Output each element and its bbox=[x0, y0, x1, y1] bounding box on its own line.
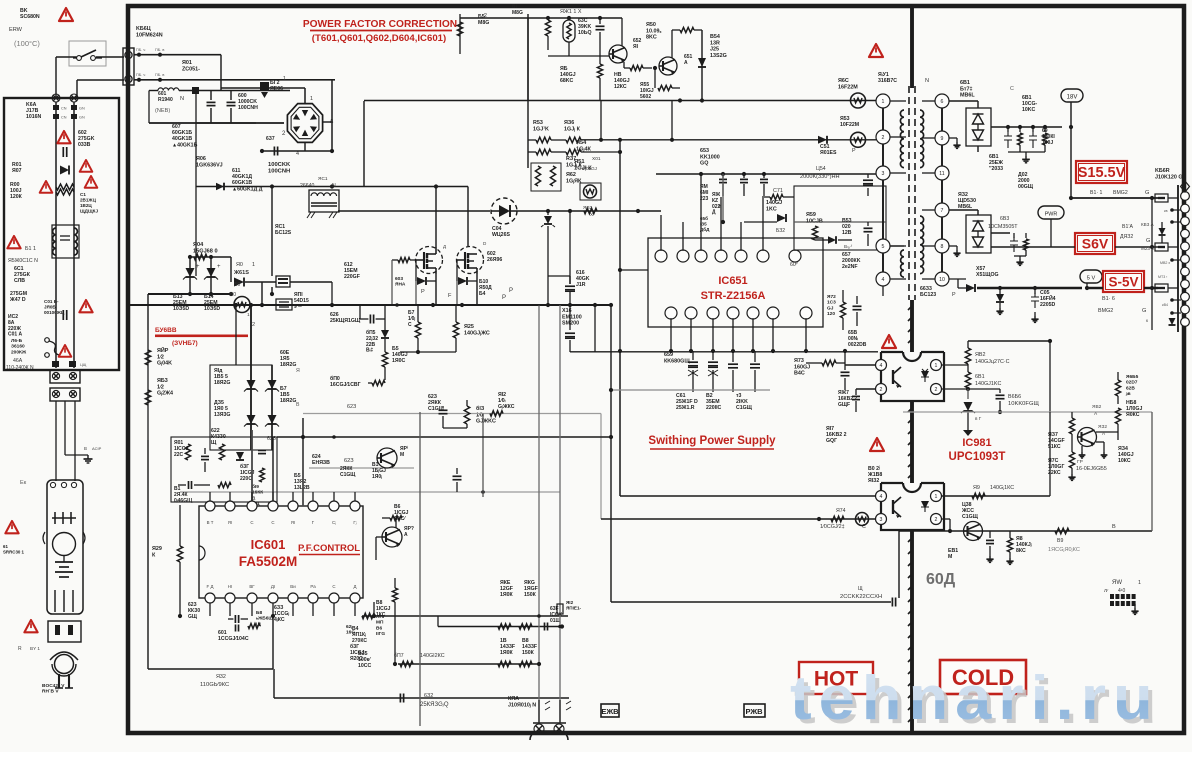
svg-text:Pа: Pа bbox=[310, 584, 316, 589]
svg-text:В2: В2 bbox=[706, 393, 713, 399]
gate resistor R612 bbox=[398, 258, 410, 263]
svg-text:ДЗ5: ДЗ5 bbox=[214, 400, 224, 406]
diode jumper bbox=[1159, 228, 1166, 235]
svg-text:611: 611 bbox=[232, 168, 240, 174]
svg-text:10КС: 10КС bbox=[1118, 458, 1131, 464]
svg-text:1Я0 5: 1Я0 5 bbox=[214, 406, 228, 412]
svg-text:ПБ. ч: ПБ. ч bbox=[136, 73, 145, 77]
svg-text:BOC42° V: BOC42° V bbox=[42, 683, 65, 689]
svg-text:ЯІд: ЯІд bbox=[214, 368, 223, 374]
wire y352 small bbox=[400, 351, 456, 353]
left rail upper segment bbox=[147, 294, 149, 330]
svg-text:18V: 18V bbox=[1067, 95, 1078, 101]
capacitor C right in box bbox=[864, 227, 873, 229]
capacitor C73 bbox=[841, 371, 850, 373]
svg-text:СЛВ: СЛВ bbox=[14, 278, 25, 284]
svg-text:МB6L: МB6L bbox=[960, 93, 975, 99]
svg-text:6ЗЗ: 6ЗЗ bbox=[274, 605, 284, 611]
optocoupler PC682 box bbox=[881, 483, 944, 530]
diode D605 bbox=[381, 330, 389, 338]
svg-text:1GJⱼ К: 1GJⱼ К bbox=[564, 126, 581, 132]
svg-text:С01 А: С01 А bbox=[8, 332, 23, 338]
svg-text:39KK: 39KK bbox=[578, 24, 592, 30]
MOSFET Q601 drain vertical bbox=[435, 187, 437, 248]
svg-text:622: 622 bbox=[211, 428, 220, 434]
zener DA2 bbox=[247, 415, 256, 424]
svg-text:EМ1100: EМ1100 bbox=[562, 314, 582, 320]
small comps right column bbox=[1170, 208, 1174, 212]
vertical x272 from y186 bbox=[271, 187, 273, 277]
svg-text:+: + bbox=[217, 264, 221, 270]
wire y341 to right bbox=[968, 340, 1050, 342]
svg-text:ІЗ5: ІЗ5 bbox=[700, 222, 707, 227]
IC601 top pins bbox=[205, 501, 215, 511]
svg-text:P.F.CONTROL: P.F.CONTROL bbox=[298, 543, 360, 554]
three rails down bbox=[55, 401, 57, 481]
svg-text:1В5: 1В5 bbox=[280, 392, 290, 398]
MOSFET Q602 drain vertical bbox=[467, 187, 469, 247]
inductor FB601 bbox=[158, 88, 179, 91]
pale line y413 bbox=[303, 413, 601, 415]
cap y602 bbox=[891, 598, 893, 607]
resistor pair y664 bbox=[498, 661, 511, 666]
svg-text:11: 11 bbox=[939, 171, 944, 177]
svg-text:10Э5D: 10Э5D bbox=[204, 306, 220, 312]
svg-text:60ᴾ: 60ᴾ bbox=[790, 262, 799, 268]
svg-text:В: В bbox=[1112, 524, 1116, 530]
svg-text:N: N bbox=[180, 96, 184, 102]
connector KRA bbox=[530, 731, 568, 740]
black label FB bbox=[601, 704, 619, 717]
svg-text:10KK0FGЩ: 10KK0FGЩ bbox=[1008, 401, 1039, 407]
svg-text:БГ2: БГ2 bbox=[270, 80, 280, 86]
svg-text:6В1: 6В1 bbox=[975, 374, 985, 380]
network cap a bbox=[201, 455, 209, 457]
wire AC2 vertical x332 bbox=[331, 79, 333, 151]
warning triangle in box 5 bbox=[79, 300, 92, 312]
bus sensor component circle bbox=[234, 297, 250, 313]
ground rail under caps bbox=[1008, 151, 1045, 153]
svg-text:100J: 100J bbox=[10, 188, 22, 194]
svg-text:4: 4 bbox=[882, 277, 885, 283]
diode at connector bottom bbox=[1169, 318, 1176, 325]
svg-text:40GK1Д: 40GK1Д bbox=[232, 174, 252, 180]
svg-text:Я59: Я59 bbox=[806, 212, 816, 218]
svg-text:10Э5D: 10Э5D bbox=[173, 306, 189, 312]
winding horizontal taps bbox=[903, 109, 905, 111]
svg-text:МП: МП bbox=[376, 620, 384, 626]
capacitor C686 bbox=[999, 389, 1001, 393]
svg-text:В: В bbox=[296, 402, 300, 408]
svg-text:2: 2 bbox=[882, 135, 885, 141]
svg-text:GQГ: GQГ bbox=[826, 438, 837, 444]
svg-text:ERW: ERW bbox=[9, 27, 23, 33]
svg-text:Ж47 D: Ж47 D bbox=[9, 297, 26, 303]
vertical x620 lower bbox=[619, 352, 621, 496]
resistor R12 bbox=[490, 411, 503, 416]
svg-text:0ⱼ46GЩ: 0ⱼ46GЩ bbox=[174, 498, 193, 504]
svg-text:G: G bbox=[1146, 238, 1150, 244]
svg-text:Б4: Б4 bbox=[479, 291, 486, 297]
svg-text:Я9: Я9 bbox=[973, 485, 980, 491]
wire under caps bbox=[611, 389, 770, 391]
svg-text:0022DВ: 0022DВ bbox=[848, 342, 867, 348]
svg-text:НВ: НВ bbox=[614, 72, 622, 78]
svg-text:2000K(330°)НH: 2000K(330°)НH bbox=[800, 174, 840, 180]
vertical x595 bbox=[594, 305, 596, 352]
svg-text:220С: 220С bbox=[240, 476, 252, 482]
transformer outer connects top bbox=[882, 93, 884, 95]
diode D652 bbox=[777, 214, 786, 222]
svg-text:6З7: 6З7 bbox=[266, 136, 275, 142]
svg-text:С: С bbox=[250, 520, 253, 525]
svg-text:ЖСС: ЖСС bbox=[961, 508, 974, 514]
wire down from line1 bbox=[220, 55, 222, 91]
svg-text:1GJІ К: 1GJІ К bbox=[574, 166, 592, 172]
red box S-5V bbox=[1103, 271, 1144, 292]
svg-text:ЯЗ4: ЯЗ4 bbox=[1118, 446, 1128, 452]
resistor R657b bbox=[415, 322, 420, 338]
resistor R73 bbox=[822, 360, 836, 366]
pale line y492 bbox=[180, 491, 560, 493]
IC601 bottom pin stubs bbox=[209, 603, 211, 616]
svg-text:Б14: Б14 bbox=[204, 294, 214, 300]
svg-text:ГР: ГР bbox=[1077, 459, 1083, 465]
svg-text:KK1000: KK1000 bbox=[700, 154, 720, 160]
vertical pin4 to y669 bbox=[272, 616, 274, 669]
capacitor C658 bbox=[853, 305, 862, 307]
svg-text:1GJ¹K: 1GJ¹K bbox=[533, 126, 549, 132]
vertical x1152 lower bbox=[1151, 412, 1153, 531]
wire y294 thick bbox=[148, 293, 231, 295]
IC601 half circle notch bbox=[199, 546, 205, 560]
svg-text:ЦЩ: ЦЩ bbox=[80, 363, 87, 367]
svg-text:1Я0К: 1Я0К bbox=[500, 592, 513, 598]
svg-text:Я54: Я54 bbox=[576, 140, 587, 146]
svg-text:13S2G: 13S2G bbox=[710, 53, 727, 59]
svg-text:9 ═: 9 ═ bbox=[294, 304, 302, 310]
network cap c bbox=[258, 449, 266, 451]
svg-text:1016N: 1016N bbox=[26, 114, 42, 120]
svg-text:М8G: М8G bbox=[478, 20, 489, 26]
svg-text:РЖВ: РЖВ bbox=[745, 707, 763, 716]
svg-text:С: С bbox=[408, 322, 412, 328]
svg-text:6С1: 6С1 bbox=[14, 266, 24, 272]
cap y698 bbox=[399, 694, 401, 703]
svg-text:140GJ: 140GJ bbox=[560, 72, 576, 78]
svg-text:13R: 13R bbox=[710, 40, 720, 46]
svg-text:tehnari.ru: tehnari.ru bbox=[790, 664, 1160, 732]
left vertical resistor R29 bbox=[179, 505, 181, 546]
zener D681b bbox=[967, 389, 969, 399]
transistor Q652 bbox=[609, 45, 627, 63]
sub box B71 bbox=[794, 186, 886, 250]
svg-text:С1GЩ: С1GЩ bbox=[962, 514, 979, 520]
gate verticals to bus bbox=[415, 281, 417, 305]
transformer secondary pins bbox=[935, 94, 949, 108]
bridge diodes ring bbox=[308, 124, 317, 133]
svg-text:Я32: Я32 bbox=[216, 674, 226, 680]
svg-text:НБ8: НБ8 bbox=[1126, 400, 1136, 406]
svg-text:Х01: Х01 bbox=[592, 156, 601, 162]
svg-text:601: 601 bbox=[218, 630, 227, 636]
svg-text:P: P bbox=[952, 292, 956, 298]
svg-text:02D7: 02D7 bbox=[1126, 380, 1138, 386]
svg-text:657: 657 bbox=[842, 252, 851, 258]
connector K6A pins bbox=[52, 94, 60, 102]
svg-text:602: 602 bbox=[78, 130, 87, 136]
svg-text:С61: С61 bbox=[676, 393, 686, 399]
svg-text:бП0: бП0 bbox=[330, 375, 340, 382]
svg-text:10СС: 10СС bbox=[358, 663, 372, 669]
svg-text:″2033: ″2033 bbox=[989, 166, 1003, 172]
svg-text:Я01ES: Я01ES bbox=[820, 150, 837, 156]
capacitor C607 bbox=[273, 147, 275, 156]
filter coil marks bbox=[54, 512, 56, 524]
pin squares rows bbox=[53, 105, 59, 110]
svg-text:G: G bbox=[1145, 190, 1149, 196]
svg-text:13L2В: 13L2В bbox=[294, 485, 310, 491]
svg-text:2: 2 bbox=[880, 387, 883, 393]
vertical x274 to y698 bbox=[273, 669, 275, 698]
svg-text:ЯІ2: ЯІ2 bbox=[498, 392, 506, 398]
svg-text:12GF: 12GF bbox=[500, 586, 513, 592]
svg-text:Я73: Я73 bbox=[794, 358, 804, 364]
svg-text:KБ6R: KБ6R bbox=[1155, 168, 1170, 174]
connector K6R body bbox=[1177, 185, 1179, 332]
svg-text:С71: С71 bbox=[773, 188, 783, 194]
svg-text:Х57: Х57 bbox=[976, 266, 985, 272]
svg-text:8КС: 8КС bbox=[1016, 548, 1026, 554]
svg-text:GJ: GJ bbox=[827, 305, 834, 311]
svg-text:140Gⱼ1КС: 140Gⱼ1КС bbox=[990, 485, 1014, 491]
MOSFET Q601 source vertical bbox=[435, 274, 437, 305]
vertical x899 bbox=[897, 531, 899, 602]
warning triangle in box 3 bbox=[40, 181, 53, 193]
diode D53 bbox=[828, 236, 836, 244]
wire D604 to rail bbox=[517, 210, 661, 212]
wire Q652 base bbox=[548, 55, 609, 57]
KRA pin stubs bbox=[538, 700, 540, 723]
svg-text:10FМ624N: 10FМ624N bbox=[136, 32, 163, 38]
svg-text:4ⱼКС: 4ⱼКС bbox=[274, 617, 285, 623]
svg-text:25КЯЗGⱼQ: 25КЯЗGⱼQ bbox=[420, 702, 449, 708]
resistor left under bbox=[392, 588, 397, 602]
svg-text:1: 1 bbox=[935, 363, 938, 369]
svg-text:25КЩЯ1GЩ: 25КЩЯ1GЩ bbox=[330, 318, 361, 324]
svg-text:ЯБ: ЯБ bbox=[560, 66, 568, 72]
resistor R56a bbox=[566, 137, 581, 143]
svg-text:ЯБ3: ЯБ3 bbox=[157, 378, 168, 384]
main PFC bus bbox=[128, 304, 612, 306]
svg-text:Я51: Я51 bbox=[574, 159, 585, 165]
jumper component J2 bbox=[1155, 243, 1168, 251]
wire switch to relay bbox=[96, 56, 124, 58]
primary winding connects bbox=[890, 100, 904, 102]
wire bridge right stub bbox=[322, 121, 332, 123]
svg-text:КВ3 А: КВ3 А bbox=[1141, 222, 1155, 227]
svg-text:М23 4: М23 4 bbox=[1141, 246, 1154, 251]
svg-text:100CNH: 100CNH bbox=[268, 169, 290, 175]
wire y428 under bbox=[443, 427, 467, 429]
diode D654 bbox=[698, 58, 706, 67]
svg-text:2: 2 bbox=[935, 387, 938, 393]
capacitor C633 bbox=[442, 407, 444, 413]
svg-text:В6Б6: В6Б6 bbox=[1008, 394, 1021, 400]
svg-text:2е2NF: 2е2NF bbox=[842, 264, 858, 270]
svg-text:60Е: 60Е bbox=[280, 350, 290, 356]
svg-text:RH´B V: RH´B V bbox=[42, 689, 59, 695]
bridge rectifier D600 octagon bbox=[287, 104, 322, 143]
wire y626 bbox=[438, 626, 562, 628]
resistor R687 col bbox=[1069, 418, 1074, 434]
svg-text:КK680GЩ: КK680GЩ bbox=[664, 358, 690, 364]
zener D688 bbox=[999, 288, 1001, 294]
svg-text:6В1: 6В1 bbox=[989, 154, 999, 160]
cap Q681 bbox=[989, 531, 991, 538]
svg-text:626: 626 bbox=[330, 312, 339, 318]
transistor Q651 bbox=[659, 57, 677, 75]
svg-text:ЯІ2: ЯІ2 bbox=[566, 600, 574, 605]
IC651 pin stubs bottom bbox=[670, 318, 672, 351]
svg-text:Gⱼ04K: Gⱼ04K bbox=[157, 361, 172, 367]
svg-text:275GМ: 275GМ bbox=[10, 291, 27, 297]
svg-text:100J: 100J bbox=[1042, 140, 1053, 146]
secondary winding upper bbox=[920, 110, 924, 168]
electrolytic C61 bbox=[692, 351, 694, 360]
svg-text:J25: J25 bbox=[710, 47, 719, 53]
transistor Q603 bbox=[377, 448, 397, 468]
wire Q651 collector bbox=[671, 30, 673, 58]
svg-text:В1· 6: В1· 6 bbox=[1102, 296, 1115, 302]
resistor R615b bbox=[382, 352, 387, 367]
wire pin7 to rect bbox=[949, 209, 978, 211]
red box HOT bbox=[799, 662, 873, 694]
svg-text:В54: В54 bbox=[710, 34, 720, 40]
wire y372 right bbox=[1071, 371, 1118, 373]
svg-text:P: P bbox=[509, 288, 513, 294]
svg-text:ПБ. в: ПБ. в bbox=[155, 48, 164, 52]
svg-text:▲40GK1Б: ▲40GK1Б bbox=[172, 142, 198, 148]
svg-text:1: 1 bbox=[283, 76, 286, 82]
svg-text:С05: С05 bbox=[1040, 290, 1050, 296]
svg-text:140GJц27С·С: 140GJц27С·С bbox=[975, 359, 1010, 365]
IC651 box bbox=[648, 238, 823, 327]
svg-text:61: 61 bbox=[3, 544, 8, 549]
wire in sub box bbox=[794, 221, 886, 223]
svg-text:В8: В8 bbox=[522, 638, 529, 644]
wire bridge bottom to y151 bbox=[304, 142, 306, 151]
svg-text:60GK1В: 60GK1В bbox=[232, 180, 252, 186]
opto led bbox=[921, 369, 929, 382]
primary winding upper bbox=[900, 110, 904, 168]
resistor R between transistors bbox=[630, 65, 643, 70]
svg-text:200КЖ: 200КЖ bbox=[11, 349, 27, 355]
long vertical x528 bbox=[527, 14, 529, 168]
svg-text:ЯІ7: ЯІ7 bbox=[826, 426, 834, 432]
wire y698 bbox=[274, 697, 569, 699]
svg-text:65б: 65б bbox=[700, 215, 708, 221]
svg-text:Я06: Я06 bbox=[196, 156, 206, 162]
svg-text:R00: R00 bbox=[10, 182, 20, 188]
svg-text:140GJ: 140GJ bbox=[1118, 452, 1134, 458]
heavy vertical to pin5 bbox=[302, 418, 304, 506]
svg-text:25Ж1.R: 25Ж1.R bbox=[676, 405, 695, 411]
svg-text:10СМ3505T: 10СМ3505T bbox=[988, 224, 1018, 230]
svg-text:В53: В53 bbox=[842, 218, 852, 224]
svg-text:110-240Ж N: 110-240Ж N bbox=[6, 365, 34, 371]
red underline bar bbox=[155, 335, 248, 338]
svg-text:БC12S: БC12S bbox=[275, 230, 292, 236]
ferrite bead W1 bbox=[851, 93, 866, 108]
svg-text:140GJⱼЖС: 140GJⱼЖС bbox=[464, 330, 490, 336]
svg-text:6В1: 6В1 bbox=[1022, 95, 1032, 101]
svg-text:Я6Б5: Я6Б5 bbox=[1126, 374, 1139, 380]
svg-text:J1R: J1R bbox=[576, 282, 586, 288]
zener DA1 bbox=[247, 380, 256, 389]
svg-text:1GK636VJ: 1GK636VJ bbox=[196, 162, 223, 168]
svg-text:Сⱼ: Сⱼ bbox=[332, 520, 336, 525]
svg-text:БЗ2: БЗ2 bbox=[776, 228, 785, 234]
svg-text:P: P bbox=[502, 295, 506, 301]
svg-text:1В2Ц: 1В2Ц bbox=[80, 203, 92, 208]
svg-text:IC651: IC651 bbox=[718, 275, 747, 287]
svg-text:K6A: K6A bbox=[26, 102, 37, 108]
svg-text:4: 4 bbox=[880, 363, 883, 369]
hatched box upper bbox=[276, 276, 290, 287]
left rail extension down bbox=[147, 440, 149, 669]
svg-text:J10K120 G: J10K120 G bbox=[1155, 174, 1183, 180]
svg-text:KБ6Ц: KБ6Ц bbox=[136, 26, 151, 32]
svg-text:00100ЖЦ: 00100ЖЦ bbox=[44, 310, 65, 315]
component R12 small bbox=[557, 604, 563, 614]
svg-text:150К: 150К bbox=[522, 650, 535, 656]
red box COLD bbox=[940, 660, 1026, 694]
svg-text:1Я5: 1Я5 bbox=[280, 356, 290, 362]
svg-text:13Я2: 13Я2 bbox=[294, 479, 306, 485]
svg-text:12В: 12В bbox=[842, 230, 852, 236]
warning triangle in box 1 bbox=[57, 131, 70, 143]
ground branch bbox=[65, 454, 88, 456]
warning triangle above plug bbox=[24, 620, 37, 632]
svg-text:Я74: Я74 bbox=[836, 508, 846, 514]
network resistor a bbox=[185, 444, 190, 460]
wire y186 to MOSFET drains bbox=[363, 186, 468, 188]
warning triangle below opto bbox=[870, 438, 884, 451]
wire bridge top bbox=[304, 88, 306, 104]
wire switch to left rail bbox=[56, 56, 77, 58]
svg-text:1⁄0ₗ: 1⁄0ₗ bbox=[498, 398, 506, 404]
heavy vertical to pin3 bbox=[251, 430, 253, 506]
svg-text:3: 3 bbox=[880, 517, 883, 523]
svg-text:46А: 46А bbox=[13, 358, 23, 364]
svg-text:N: N bbox=[925, 78, 929, 84]
capacitor C626b bbox=[369, 315, 371, 324]
svg-text:ЯВ2: ЯВ2 bbox=[1092, 404, 1102, 410]
svg-text:FA5502M: FA5502M bbox=[239, 554, 298, 569]
rectifier D681 box bbox=[966, 108, 991, 146]
ferrite bead W2 bbox=[851, 132, 866, 147]
svg-text:З6160: З6160 bbox=[11, 344, 25, 350]
svg-text:220GF: 220GF bbox=[344, 274, 360, 280]
resistor R69 bbox=[1055, 528, 1069, 533]
resistor R53b bbox=[536, 149, 551, 155]
ground symbol left column bbox=[87, 455, 89, 459]
svg-text:ДЯЗ2: ДЯЗ2 bbox=[1120, 234, 1133, 240]
svg-text:В0 2ʲ: В0 2ʲ bbox=[868, 466, 880, 472]
power switch S601 bbox=[69, 41, 106, 66]
svg-text:С: С bbox=[332, 584, 335, 589]
